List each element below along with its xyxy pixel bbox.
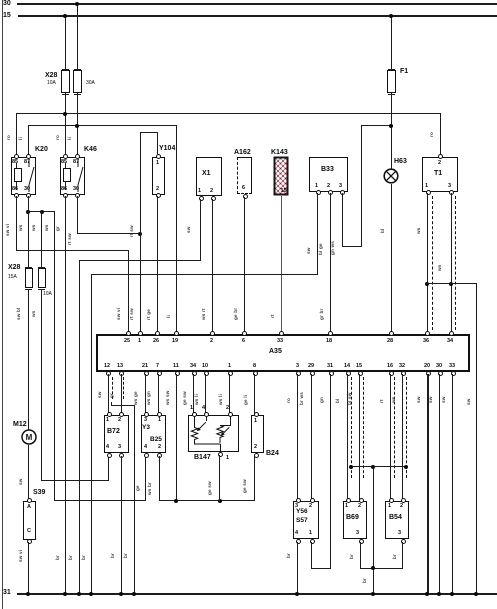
shield drop to line31 xyxy=(373,466,374,594)
wire fuse10A down to rail1 and K46 pin 85 xyxy=(65,96,66,156)
wire Y56 pin4 down to line31 xyxy=(297,542,298,594)
A35 bottom pin 31 xyxy=(329,371,334,376)
wire A35-29 to Y56-2 xyxy=(311,374,312,500)
ground route h (B33 pin1 to x=91) xyxy=(91,274,318,275)
junction shield bus / dash 14 xyxy=(349,465,353,469)
wire label rt sw xyxy=(67,233,72,245)
wire label ro xyxy=(6,135,11,140)
A35 bottom pin 33 xyxy=(451,371,456,376)
A35 bottom pin 21 xyxy=(144,371,149,376)
wire A35-16 to B54-1 xyxy=(390,374,391,500)
valve/switch Y56 S57 xyxy=(293,501,319,539)
wire S39 down to line31 xyxy=(28,542,29,594)
label 30 xyxy=(3,0,11,8)
h-link of T1 solid wires to right drop xyxy=(427,283,477,284)
bus line 30 xyxy=(17,3,497,5)
junction jog/fuse15A wire xyxy=(26,210,30,214)
wire rail1 corner down to T1 pin2 xyxy=(440,113,441,154)
wire A35-33 to line31 xyxy=(452,374,453,594)
wire label rt xyxy=(270,314,275,318)
wire A35-8 to B24-1 xyxy=(254,374,255,414)
wire label li xyxy=(18,137,23,140)
shield dash T1 pin1 xyxy=(432,196,433,330)
junction line31 / B72-3 wire xyxy=(119,592,123,596)
junction line31 / X1-1 ground wire xyxy=(77,592,81,596)
wire T1 pin1 down to A35 pin 36 xyxy=(427,193,428,332)
svg-text:M: M xyxy=(26,433,33,442)
junction jog/fuse10A wire xyxy=(40,210,44,214)
K46 contact xyxy=(73,160,87,192)
wire fuse15A down to M12 xyxy=(28,289,29,430)
wire labels B33 xyxy=(306,247,311,254)
label 31 xyxy=(3,589,11,597)
relay K46 xyxy=(84,146,97,154)
switch S39 xyxy=(33,489,45,497)
wire label ro xyxy=(429,132,434,137)
junction shield bus / drain drop xyxy=(371,465,375,469)
A35 top pin 36 xyxy=(425,331,430,336)
junction line30 / fuse wire xyxy=(75,2,79,6)
wire X1 pin2 down to A35 pin 2 xyxy=(212,199,213,332)
wire T1 pin3 down to A35 pin 34 xyxy=(451,193,452,332)
label 30A xyxy=(86,80,95,86)
wire label bl xyxy=(380,229,385,233)
A35 bottom pin 8 xyxy=(253,371,258,376)
connector A162 (dashed) xyxy=(234,149,251,157)
wire B33 pin2 down to A35 pin 18 xyxy=(330,193,331,332)
wire A35-31 down to Y56-1 jog xyxy=(330,374,331,569)
junction line31 / T1 shield drop wire xyxy=(474,592,478,596)
junction line31 / shield drain wire xyxy=(132,592,136,596)
A35 bottom pin 14 xyxy=(346,371,351,376)
shield dash pair 12/13 xyxy=(112,377,113,399)
junction line31 / B69-B54 drain wire xyxy=(371,592,375,596)
wire A35-21 to Y3-3 xyxy=(145,374,146,414)
wire down to fuse X28 10A(lower) xyxy=(41,211,42,268)
connector X1 xyxy=(196,157,222,196)
wire rail1 down to K20 pin 85 xyxy=(16,113,17,156)
rail 1 (from fuse X28 10A, y=113) xyxy=(16,113,441,114)
wire label rt sw xyxy=(129,308,134,320)
wire A35-32 to B54-2 xyxy=(402,374,403,500)
wire label ro xyxy=(55,135,60,140)
ECU A35 xyxy=(96,334,470,372)
wire Y104 pin1 up-left to x140 xyxy=(157,132,158,154)
wire rail2 down to K20 pin 87 xyxy=(28,125,29,156)
wire B33 pin1 down to ground route xyxy=(317,193,318,275)
shield dash T1 pin3 xyxy=(455,196,456,330)
shield collector to ground xyxy=(111,405,135,406)
rail 2a (from fuse X28 30A, y=125) xyxy=(28,125,177,126)
wire A35-7 to Y3-1 xyxy=(158,374,159,414)
A35 bottom pin 10 xyxy=(204,371,209,376)
shield dash pair 16/32 xyxy=(394,377,395,478)
sensor B54 xyxy=(385,501,409,539)
junction line31 / A35-33 wire xyxy=(450,592,454,596)
A35 top pin 19 xyxy=(174,331,179,336)
sensor B147 (double thermistor) xyxy=(188,415,239,452)
shield bus for 14/15/16/32 xyxy=(351,466,406,467)
wire jog corner down (x=54 long feed to Y3 pin4) xyxy=(54,211,55,501)
relay K20 xyxy=(35,146,48,154)
rail 2b (right segment feeding B33 pin3 / F1 node) xyxy=(361,125,392,126)
fuse X28 15A (lower left) xyxy=(25,268,33,288)
jog K46-30 to node x140 xyxy=(77,233,141,234)
junction line31 / K46-86 wire xyxy=(63,592,67,596)
label 10A xyxy=(47,80,56,86)
wire label sw/vi xyxy=(5,224,10,236)
A35 bottom pin 20 xyxy=(426,371,431,376)
junction shield bus / dash 32 xyxy=(404,465,408,469)
wire K143 down to A35 pin 33 xyxy=(281,196,282,332)
label X28 lower xyxy=(8,264,20,272)
wire A35-1 to B147-2 xyxy=(229,374,230,414)
A35 bottom pin 11 xyxy=(175,371,180,376)
sensor B24 xyxy=(251,415,264,453)
A35 bottom pin 13 xyxy=(119,371,124,376)
A35 top pin 6 xyxy=(242,331,247,336)
wire B54 pin3 down jog xyxy=(402,542,403,569)
wire A35-14 to B69-1 xyxy=(347,374,348,500)
K46 coil xyxy=(63,168,71,182)
A35 bottom pin 3 xyxy=(296,371,301,376)
junction line31 / A35-30 wire xyxy=(437,592,441,596)
A35 bottom pin 7 xyxy=(157,371,162,376)
junction line31 / B33-1 ground wire xyxy=(89,592,93,596)
fuse X28 30A (right) xyxy=(73,70,82,93)
ignition module T1 xyxy=(422,157,458,192)
A35 top pin 25 xyxy=(126,331,131,336)
K20 contact xyxy=(24,160,38,192)
junction line31 / S39 wire xyxy=(26,592,30,596)
junction T1-3 wire xyxy=(449,282,453,286)
wire B33 pin3 up-loop to rail2b xyxy=(342,193,343,247)
wire A35-3 to Y56-3 xyxy=(297,374,298,500)
jog x54 to Y3 pin4 xyxy=(54,500,146,501)
A35 bottom pin 32 xyxy=(401,371,406,376)
bus line 31 xyxy=(17,593,497,595)
motor M12 xyxy=(13,421,27,429)
wire Y104 pin2 down to A35 pin 26 xyxy=(157,196,158,332)
junction rail2 / fuse30A xyxy=(75,124,79,128)
valve Y3 / B25 xyxy=(141,415,166,453)
ground route v down to line31 xyxy=(79,260,80,594)
bus line 15 xyxy=(18,15,497,17)
jog K20-30 feeding lower fuses xyxy=(28,211,54,212)
wire label br rows above line31 xyxy=(55,555,60,560)
wire X1 pin1 down to ground route xyxy=(200,199,201,261)
K20 coil xyxy=(14,168,22,182)
wire node x140 down to A35 pin 1 xyxy=(140,132,141,332)
wire label ws (T1 pin1) xyxy=(416,227,421,234)
wire A35-20 to line31 (bold) xyxy=(427,374,429,594)
wire A35-13 to B72-2 xyxy=(121,374,122,414)
junction node y501/x176 xyxy=(174,499,178,503)
wire rail2 corner down to A35 pin19 xyxy=(176,125,177,332)
jog joining B69-3 B54-3 to drop xyxy=(360,568,403,569)
wire label rt sw xyxy=(129,225,134,237)
wire label ws xyxy=(437,264,442,271)
right drop down to line31 xyxy=(476,283,477,594)
A35 top pin 26 xyxy=(155,331,160,336)
wire label sw (X1 pin1) xyxy=(186,226,191,233)
wire label ws rt xyxy=(201,308,206,320)
ground route h (X1 pin1 to x=79) xyxy=(79,260,201,261)
junction F1/line15 xyxy=(389,14,393,18)
lamp H63 xyxy=(394,158,407,166)
sensor B69 xyxy=(343,501,367,539)
valve Y104 xyxy=(159,145,175,153)
junction line31 / Y56-4 wire xyxy=(295,592,299,596)
A35 bottom pin 34 xyxy=(192,371,197,376)
junction rail1 / fuse10A xyxy=(63,112,67,116)
staircase K20-86 to A35 pin25 xyxy=(16,250,128,251)
A35 top pin 1 xyxy=(138,331,143,336)
sensor B33 xyxy=(309,157,348,192)
junction node y501/x219 xyxy=(218,499,222,503)
page left border xyxy=(2,0,3,609)
wire A35-10 to B147-4 xyxy=(205,374,206,414)
wire label sw xyxy=(466,398,471,405)
wire K46 pin86 down to line31 xyxy=(65,196,66,594)
shield dash pair 14/15 xyxy=(351,377,352,478)
wire line30 to fuse X28-30A xyxy=(77,3,78,71)
A35 bottom pin 16 xyxy=(389,371,394,376)
fuse X28 10A (left) xyxy=(61,70,70,93)
wire fuse10A(lower) down and jog to B72 pin4 xyxy=(41,289,42,481)
junction T1-1 wire xyxy=(425,282,429,286)
wire B69 pin3 down jog xyxy=(360,542,361,569)
label 10A xyxy=(43,291,52,297)
wire label ws xyxy=(18,224,23,231)
wire label ws xyxy=(31,224,36,231)
A35 bottom pin 15 xyxy=(358,371,363,376)
wire Y56 pin1 jog to A35-31 wire xyxy=(311,542,312,569)
A35 top pin 34 xyxy=(449,331,454,336)
A35 top pin 28 xyxy=(389,331,394,336)
wire A162 pin6 down to A35 pin 6 xyxy=(244,197,245,332)
wire M12 to S39 xyxy=(28,445,29,500)
wire K20 pin30 down to jog xyxy=(28,196,29,212)
wire label ge br xyxy=(233,308,238,320)
wire A35-34 to B147-1 xyxy=(193,374,194,414)
label F1 xyxy=(400,68,408,76)
wire A35-11 down to node y501 xyxy=(176,374,177,502)
svg-text:15: 15 xyxy=(281,188,287,194)
A35 top pin 33 xyxy=(279,331,284,336)
wire label gr xyxy=(55,226,60,231)
label 15 xyxy=(3,12,11,20)
wire label rt ge xyxy=(146,309,151,320)
wire B72 pin3 down to line31 xyxy=(121,456,122,594)
junction F1 wire / rail2b xyxy=(389,124,393,128)
ground route v x=91 down to line31 xyxy=(91,274,92,594)
A35 top pin 18 xyxy=(328,331,333,336)
wire K20 pin86 down xyxy=(16,196,17,251)
sensor B72 xyxy=(104,415,129,453)
label X28 (top fuses) xyxy=(45,72,57,80)
wire A35-30 to line31 xyxy=(439,374,440,594)
wire B147 pin1(bottom) down to node y501 xyxy=(219,455,220,501)
wire H63 down to A35 pin 28 xyxy=(391,184,392,332)
junction K46-30 jog / Y104 net xyxy=(138,232,142,236)
junction line15 / fuse wire xyxy=(63,14,67,18)
fuse F1 xyxy=(391,15,392,71)
A35 top pin 2 xyxy=(210,331,215,336)
relay K143 (hatched) xyxy=(271,149,288,157)
A35 bottom pin 1 xyxy=(228,371,233,376)
wire A35-15 to B69-2 xyxy=(359,374,360,500)
wire K46 pin30 down xyxy=(77,196,78,234)
wire label li xyxy=(166,315,171,318)
wire label sw vi (K20-86 wire above A35) xyxy=(116,308,121,320)
wire A35-12 to B72-1 xyxy=(108,374,109,414)
wire label ws xyxy=(44,224,49,231)
fuse X28 10A (lower right) xyxy=(38,268,46,288)
label 15A xyxy=(8,274,17,280)
A35 bottom pin 29 xyxy=(310,371,315,376)
A35 bottom pin 30 xyxy=(438,371,443,376)
wire line15 to fuse X28-10A xyxy=(65,15,66,71)
wire down to fuse X28 15A xyxy=(28,211,29,268)
wire F1 down to H63 (crosses rail1, junction rail2b) xyxy=(391,96,392,169)
junction line31 / A35-20 wire xyxy=(425,592,429,596)
wire fuse30A down to rail2 and K46 pin 87 xyxy=(77,96,78,156)
riser to B24 pin2 xyxy=(254,456,255,501)
A35 bottom pin 12 xyxy=(106,371,111,376)
wire label li xyxy=(67,137,72,140)
wire Y3 pin2 down jog right xyxy=(159,456,160,501)
